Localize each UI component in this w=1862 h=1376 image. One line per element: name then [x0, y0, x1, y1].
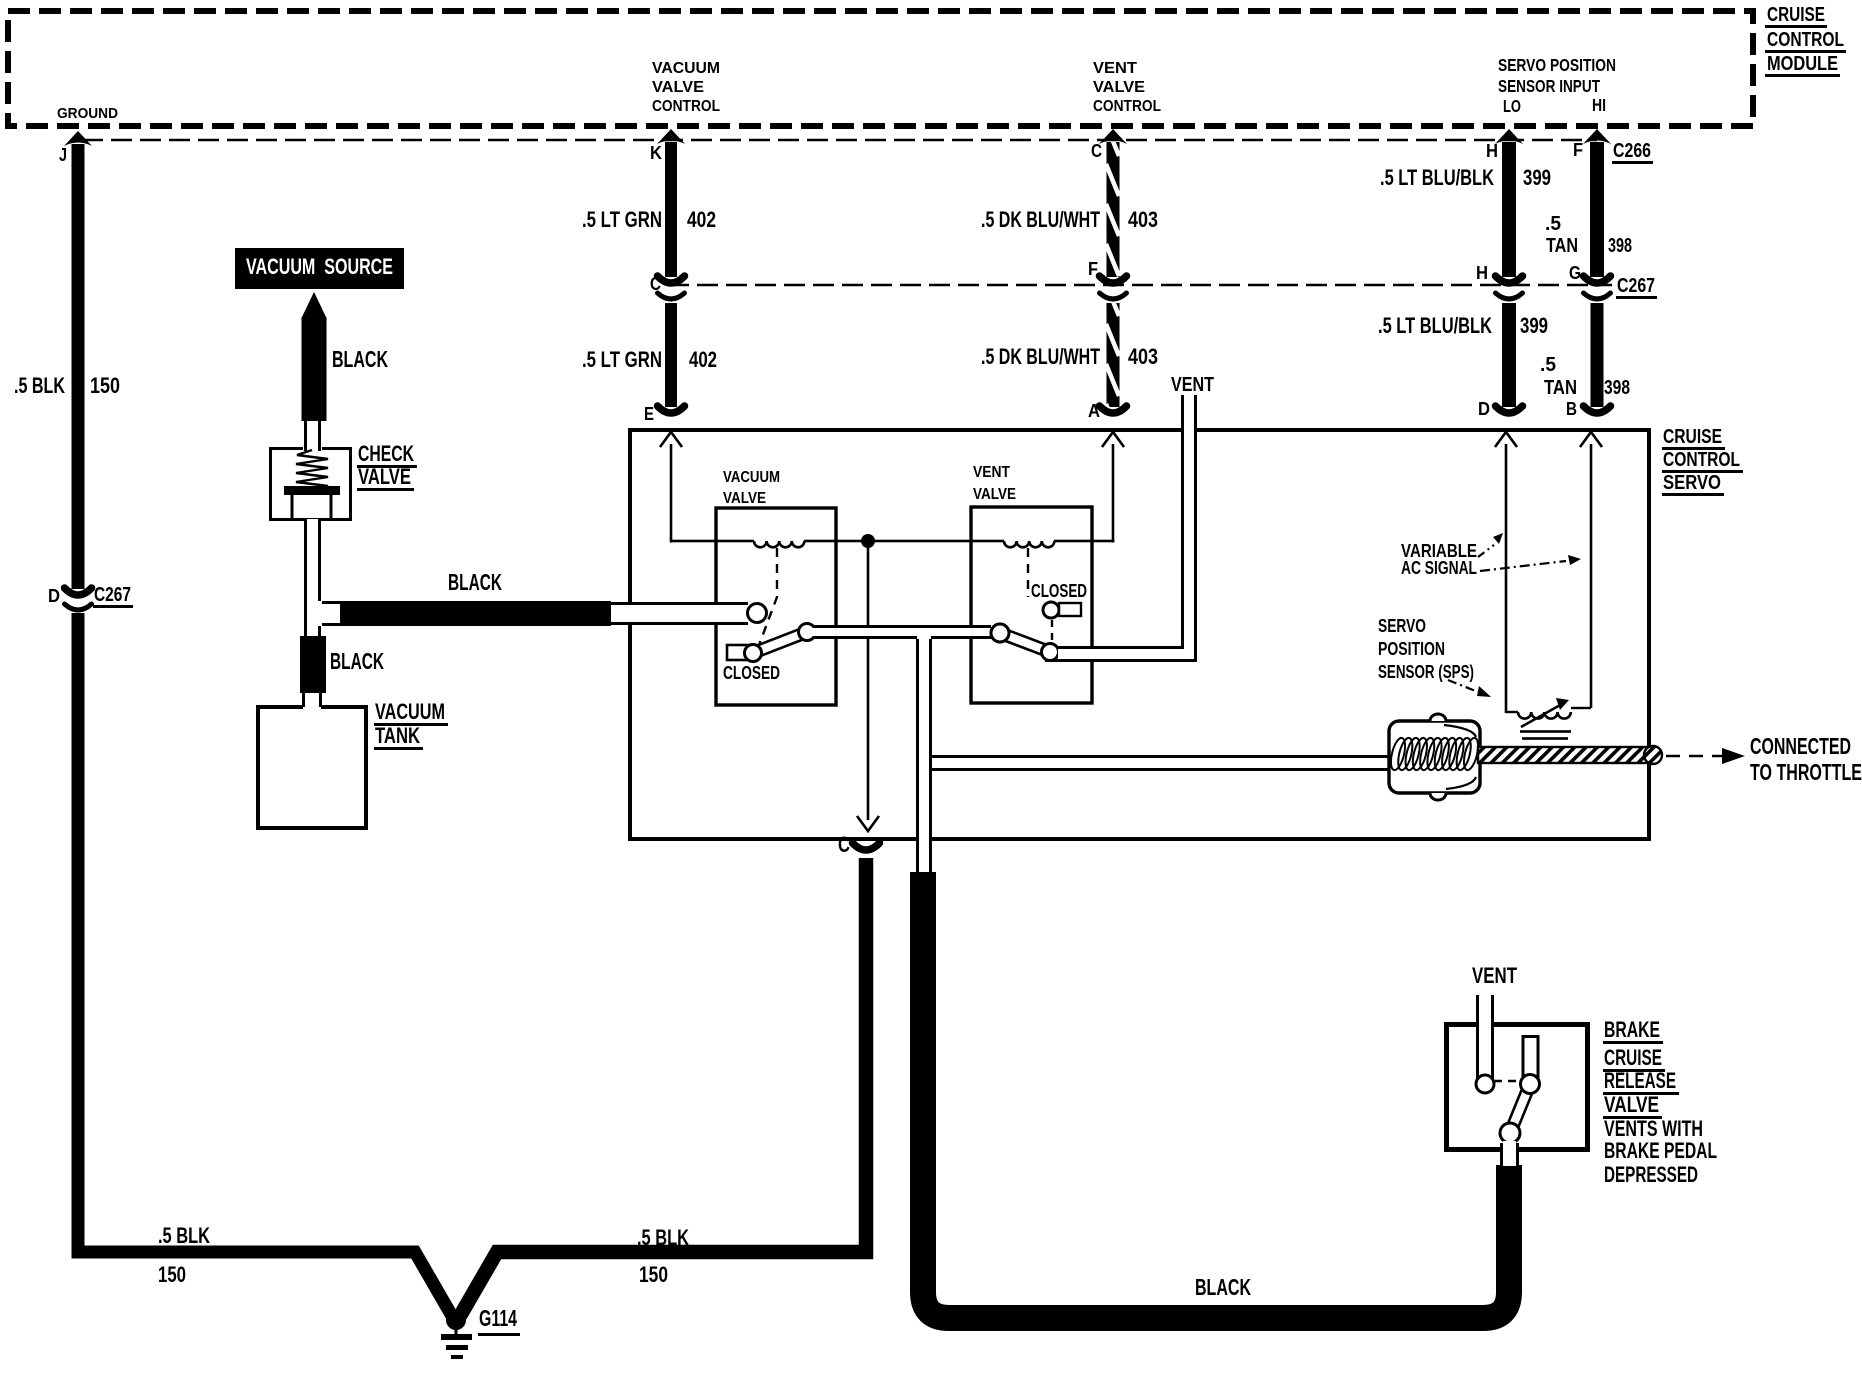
- brake valve lever bar: [1505, 1082, 1535, 1135]
- cruise control module dashed box: [8, 11, 1753, 126]
- wire .5 BLK 150 lower segment to ground: [78, 613, 452, 1316]
- svg-text:SENSOR (SPS): SENSOR (SPS): [1378, 662, 1474, 683]
- svg-text:DEPRESSED: DEPRESSED: [1604, 1162, 1698, 1187]
- svg-text:SERVO: SERVO: [1378, 616, 1426, 637]
- svg-text:VALVE: VALVE: [652, 79, 704, 96]
- svg-text:150: 150: [639, 1262, 668, 1287]
- svg-text:VENT: VENT: [973, 464, 1010, 481]
- vent valve plunger dashed line: [1027, 548, 1029, 597]
- terminal A arrow inside servo: [1102, 432, 1124, 447]
- wire .5 DK BLU/WHT 403 upper segment: [1107, 142, 1120, 277]
- terminal C arrow (vent valve control): [1099, 129, 1127, 144]
- servo spring housing: [1389, 721, 1480, 793]
- check valve box: [271, 449, 351, 520]
- svg-text:403: 403: [1128, 344, 1158, 369]
- svg-text:CLOSED: CLOSED: [723, 663, 780, 684]
- SPS wiper line B: [1580, 432, 1602, 447]
- connector row C266 dashed line: [82, 139, 1597, 142]
- svg-text:.5 LT BLU/BLK: .5 LT BLU/BLK: [1378, 313, 1492, 338]
- ground G114 symbol: [446, 1310, 466, 1330]
- vent valve lever pivot left: [991, 624, 1009, 642]
- connector F (wire 403): [1100, 276, 1127, 283]
- terminal C flare below servo: [853, 843, 880, 850]
- svg-text:BLACK: BLACK: [330, 648, 384, 674]
- svg-text:C267: C267: [94, 584, 131, 606]
- svg-text:.5 LT GRN: .5 LT GRN: [582, 207, 662, 232]
- svg-text:CONTROL: CONTROL: [1767, 29, 1844, 51]
- vacuum valve coil: [754, 541, 804, 547]
- svg-text:.5 DK BLU/WHT: .5 DK BLU/WHT: [981, 207, 1100, 232]
- pipe vent valve to vent stack: [1058, 649, 1195, 659]
- svg-text:.5 BLK: .5 BLK: [158, 1223, 210, 1248]
- terminal E arrow inside servo: [660, 432, 682, 447]
- svg-text:VENT: VENT: [1472, 963, 1518, 988]
- terminal J arrow: [64, 131, 92, 146]
- svg-text:402: 402: [689, 347, 717, 372]
- vacuum valve lever pivot (closed end): [745, 645, 762, 662]
- vacuum valve box: [716, 508, 836, 705]
- svg-text:VENT: VENT: [1171, 374, 1214, 396]
- svg-text:VALVE: VALVE: [358, 464, 411, 489]
- vent valve coil: [1004, 541, 1054, 547]
- hose BLACK from vacuum source: [302, 319, 327, 421]
- svg-text:A: A: [1088, 401, 1100, 422]
- vent valve inlet port: [991, 624, 1009, 642]
- cruise control servo box: [630, 430, 1649, 839]
- svg-text:CLOSED: CLOSED: [1031, 581, 1087, 602]
- svg-text:MODULE: MODULE: [1767, 53, 1838, 75]
- wire .5 BLK 150 from servo C to ground: [460, 858, 866, 1316]
- svg-text:BLACK: BLACK: [332, 346, 388, 372]
- svg-text:B: B: [1566, 399, 1577, 420]
- connector row C267 dashed line: [668, 284, 1612, 287]
- svg-text:CONTROL: CONTROL: [1093, 98, 1161, 115]
- svg-text:403: 403: [1128, 207, 1158, 232]
- wire .5 LT GRN 402 lower segment: [665, 303, 677, 407]
- svg-text:SERVO POSITION: SERVO POSITION: [1498, 55, 1616, 75]
- svg-text:CONNECTED: CONNECTED: [1750, 733, 1851, 759]
- SPS resistor element: [1506, 711, 1518, 713]
- svg-text:F: F: [1088, 259, 1098, 280]
- pipe from check valve to tee: [307, 519, 318, 636]
- terminal K arrow: [657, 129, 685, 144]
- svg-text:C266: C266: [1613, 140, 1651, 162]
- actuator rod lines: [931, 755, 1390, 758]
- pointer arrow to SPS element: [1448, 680, 1478, 692]
- terminal F arrow (SPS HI): [1583, 129, 1611, 144]
- svg-text:VACUUM: VACUUM: [723, 469, 780, 486]
- svg-text:402: 402: [687, 207, 716, 232]
- svg-text:D: D: [48, 586, 60, 607]
- terminal H arrow (SPS LO): [1495, 129, 1523, 144]
- wire vent coil to A: [1054, 540, 1114, 543]
- svg-text:BLACK: BLACK: [448, 569, 502, 595]
- vacuum valve inlet port: [748, 604, 767, 623]
- svg-text:RELEASE: RELEASE: [1604, 1068, 1676, 1093]
- SPS wiper arrow: [1521, 704, 1562, 727]
- svg-text:H: H: [1476, 263, 1488, 284]
- svg-text:CRUISE: CRUISE: [1604, 1045, 1662, 1070]
- servo spring coil: [1388, 737, 1481, 772]
- svg-text:E: E: [644, 404, 654, 425]
- svg-text:H: H: [1486, 141, 1498, 162]
- svg-text:LO: LO: [1503, 96, 1521, 116]
- pipe from hose into vacuum valve: [611, 605, 751, 622]
- svg-text:.5 LT BLU/BLK: .5 LT BLU/BLK: [1380, 165, 1494, 190]
- svg-text:CRUISE: CRUISE: [1663, 426, 1722, 448]
- svg-text:G114: G114: [479, 1305, 517, 1331]
- svg-text:VACUUM: VACUUM: [375, 699, 445, 724]
- terminal E flare: [658, 406, 685, 413]
- spring attachment squiggle bottom: [1446, 777, 1476, 789]
- SPS wiper line D: [1495, 432, 1517, 447]
- svg-text:G: G: [1569, 263, 1581, 284]
- svg-text:TO THROTTLE: TO THROTTLE: [1750, 759, 1862, 785]
- svg-text:.5: .5: [1540, 354, 1556, 376]
- svg-text:CONTROL: CONTROL: [652, 98, 720, 115]
- svg-text:398: 398: [1608, 235, 1632, 257]
- svg-text:150: 150: [90, 373, 120, 398]
- svg-text:BRAKE PEDAL: BRAKE PEDAL: [1604, 1138, 1717, 1163]
- svg-text:SENSOR INPUT: SENSOR INPUT: [1498, 76, 1600, 96]
- vent valve box: [971, 507, 1092, 703]
- svg-text:BRAKE: BRAKE: [1604, 1017, 1660, 1042]
- svg-text:399: 399: [1523, 165, 1551, 190]
- pointer arrow to D line: [1478, 545, 1494, 557]
- dashed link between ports: [1494, 1080, 1522, 1082]
- svg-text:.5 LT GRN: .5 LT GRN: [582, 347, 662, 372]
- connector D C267: [65, 588, 92, 595]
- vacuum valve closed port stub: [727, 645, 753, 660]
- connector H (row2): [1496, 276, 1523, 283]
- svg-text:TAN: TAN: [1544, 377, 1577, 399]
- vent valve lever pivot right: [1042, 644, 1059, 661]
- wire .5 LT BLU/BLK 399 upper segment: [1502, 142, 1516, 277]
- vent pipe into brake valve: [1479, 995, 1491, 1080]
- svg-text:VALVE: VALVE: [1093, 79, 1145, 96]
- check valve seat: [284, 486, 340, 495]
- svg-text:398: 398: [1604, 377, 1630, 399]
- svg-text:TAN: TAN: [1546, 235, 1578, 257]
- vent valve lever bar: [998, 628, 1052, 657]
- wire coil to junction: [804, 540, 1004, 543]
- svg-text:AC SIGNAL: AC SIGNAL: [1401, 558, 1477, 579]
- vacuum tee pipe down from valve pipe: [919, 636, 929, 865]
- vent valve closed port circle: [1043, 602, 1059, 618]
- spring attachment squiggle top: [1444, 725, 1476, 737]
- brake valve inner port tube: [1523, 1037, 1538, 1079]
- pipe into vacuum tank: [305, 693, 319, 707]
- wire .5 TAN 398 lower segment: [1591, 303, 1604, 407]
- svg-text:POSITION: POSITION: [1378, 639, 1445, 660]
- hose BLACK servo to brake valve: [923, 872, 1509, 1318]
- brake valve lever pivot bottom: [1500, 1123, 1520, 1143]
- svg-text:CRUISE: CRUISE: [1767, 4, 1825, 26]
- svg-text:D: D: [1478, 399, 1490, 420]
- wire .5 DK BLU/WHT 403 lower segment: [1107, 303, 1120, 407]
- svg-text:.5 BLK: .5 BLK: [14, 373, 65, 398]
- check valve spring: [296, 450, 328, 489]
- svg-text:C: C: [1091, 141, 1102, 162]
- vacuum tank box: [258, 707, 366, 828]
- terminal B flare: [1584, 406, 1611, 413]
- svg-text:TANK: TANK: [375, 723, 420, 748]
- svg-text:C: C: [650, 274, 661, 295]
- connector G (row2): [1584, 276, 1611, 283]
- dashed arrow to throttle: [1666, 755, 1722, 758]
- check valve lower channel: [291, 495, 294, 519]
- wire .5 BLK 150 upper segment: [72, 144, 85, 589]
- svg-text:VALVE: VALVE: [973, 486, 1016, 503]
- svg-text:.5: .5: [1545, 213, 1561, 235]
- pipe vacuum valve to vent valve: [812, 628, 991, 636]
- svg-text:F: F: [1573, 140, 1583, 161]
- svg-text:C267: C267: [1617, 275, 1655, 297]
- svg-text:BLACK: BLACK: [1195, 1274, 1251, 1300]
- svg-text:.5 BLK: .5 BLK: [637, 1225, 689, 1250]
- svg-text:VALVE: VALVE: [723, 490, 766, 507]
- wire A to vent valve coil: [1112, 444, 1115, 543]
- svg-text:CONTROL: CONTROL: [1663, 449, 1740, 471]
- svg-text:399: 399: [1520, 313, 1548, 338]
- svg-text:VACUUM: VACUUM: [652, 60, 720, 77]
- vacuum valve plunger dashed line: [759, 548, 777, 645]
- brake cruise release valve box: [1447, 1025, 1588, 1150]
- svg-text:K: K: [650, 143, 662, 164]
- pipe into check valve: [304, 421, 321, 451]
- vacuum valve lever bar: [751, 627, 809, 658]
- wire .5 LT GRN 402 upper segment: [665, 142, 677, 277]
- vacuum source arrow: [301, 292, 327, 319]
- terminal D flare: [1496, 406, 1523, 413]
- svg-text:GROUND: GROUND: [57, 106, 118, 122]
- vacuum source label box: [235, 248, 404, 289]
- wire .5 TAN 398 upper segment: [1590, 142, 1604, 277]
- svg-text:J: J: [59, 145, 67, 166]
- hose BLACK to vacuum tank: [300, 636, 326, 693]
- SPS base lines: [1520, 730, 1571, 733]
- stem pipe below lever: [1503, 1141, 1516, 1166]
- wire E to vacuum valve coil: [670, 444, 673, 543]
- wire junction to terminal C: [867, 548, 870, 820]
- brake valve port right: [1521, 1075, 1540, 1094]
- svg-text:C: C: [838, 832, 850, 857]
- terminal C arrow (down): [857, 816, 879, 831]
- wire .5 LT BLU/BLK 399 lower segment: [1502, 303, 1516, 407]
- hose BLACK horizontal: [340, 601, 611, 626]
- throttle screw rod (hatched): [1478, 747, 1650, 763]
- svg-text:.5 DK BLU/WHT: .5 DK BLU/WHT: [981, 344, 1100, 369]
- brake valve port left: [1476, 1075, 1494, 1093]
- vent stack pipe: [1184, 395, 1194, 651]
- svg-text:VENT: VENT: [1093, 60, 1137, 77]
- svg-text:VACUUM SOURCE: VACUUM SOURCE: [246, 254, 393, 279]
- svg-text:SERVO: SERVO: [1663, 472, 1721, 494]
- svg-text:VALVE: VALVE: [1604, 1092, 1659, 1117]
- junction node (coil common): [861, 534, 875, 548]
- vacuum valve lever pivot (outlet): [799, 624, 816, 641]
- svg-text:150: 150: [158, 1262, 186, 1287]
- connector C (wire 402): [658, 276, 685, 283]
- terminal A flare: [1100, 406, 1127, 413]
- svg-text:CHECK: CHECK: [358, 441, 414, 466]
- vent valve closed port stub: [1059, 603, 1081, 616]
- pointer arrow to B line: [1480, 561, 1566, 571]
- svg-text:HI: HI: [1592, 95, 1606, 115]
